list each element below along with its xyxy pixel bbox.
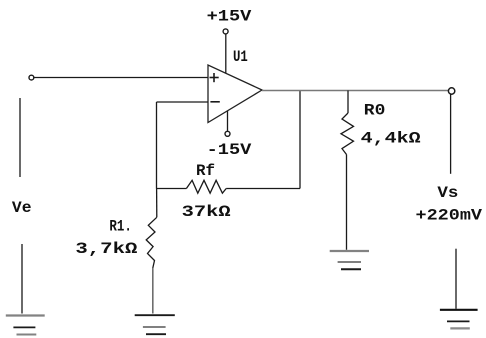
svg-text:37kΩ: 37kΩ [182, 203, 232, 221]
svg-text:R1.: R1. [109, 218, 131, 236]
svg-text:R0: R0 [364, 101, 386, 119]
svg-text:+15V: +15V [207, 8, 252, 26]
svg-text:+220mV: +220mV [416, 207, 483, 225]
svg-text:Rf: Rf [196, 162, 215, 180]
svg-text:U1: U1 [233, 48, 248, 66]
svg-text:4,4kΩ: 4,4kΩ [361, 129, 421, 147]
svg-text:Ve: Ve [12, 199, 32, 217]
svg-text:Vs: Vs [437, 184, 458, 202]
svg-text:-15V: -15V [207, 141, 252, 159]
svg-text:3,7kΩ: 3,7kΩ [75, 240, 138, 258]
